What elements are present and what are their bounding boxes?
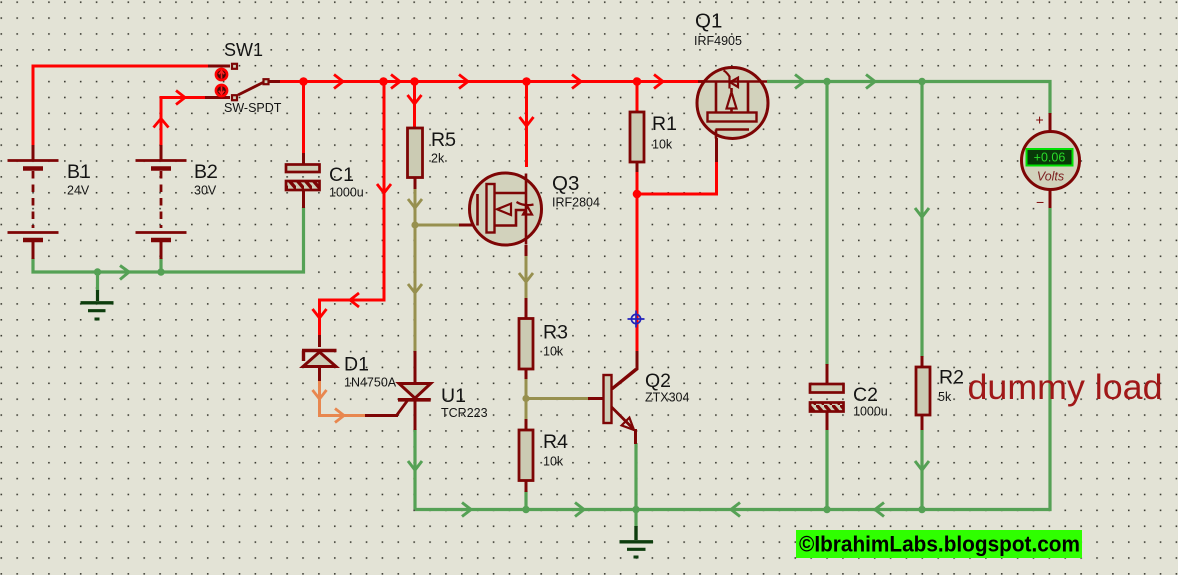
- switch SW1 toggle button up: [216, 69, 227, 80]
- pin: C1 bottom lead (dark): [302, 188, 305, 208]
- pin: U1 gate lead (dark): [365, 400, 408, 416]
- thyristor U1: [398, 384, 431, 400]
- wire: Q2 emitter to rail (green): [634, 443, 637, 510]
- pin: voltmeter plus lead (dark): [1049, 113, 1052, 133]
- ground (center, bottom rail): [620, 526, 654, 557]
- svg-text:2k: 2k: [431, 152, 445, 166]
- svg-text:©IbrahimLabs.blogspot.com: ©IbrahimLabs.blogspot.com: [799, 532, 1080, 557]
- resistor R1: [630, 112, 644, 162]
- pin: R3 top lead (dark): [525, 298, 528, 319]
- pin: R2 bottom lead (dark): [921, 414, 924, 431]
- capacitor C1: [286, 165, 320, 191]
- svg-text:R1: R1: [652, 113, 677, 135]
- junction: bus at R5 drop: [410, 77, 419, 86]
- resistor R3: [519, 319, 533, 370]
- pin: SW1 pole lead (dark): [269, 80, 281, 83]
- svg-text:10k: 10k: [543, 455, 564, 469]
- pin: U1 cathode lead (dark): [414, 399, 417, 430]
- svg-text:+0.06: +0.06: [1034, 151, 1066, 165]
- svg-text:1000u: 1000u: [329, 186, 364, 200]
- voltmeter display: [1027, 149, 1073, 166]
- pin: Q2 emitter lead (dark): [634, 429, 637, 444]
- battery B2: [136, 161, 187, 241]
- junction: bus at Q3 drain drop: [522, 77, 531, 86]
- MOSFET Q3 body: [470, 173, 542, 245]
- pin: Q3 gate lead (dark): [459, 224, 478, 227]
- svg-text:dummy load: dummy load: [968, 368, 1163, 407]
- wire: green to center ground: [634, 510, 637, 528]
- switch SW1 (SPDT): [232, 64, 269, 100]
- svg-text:Volts: Volts: [1037, 170, 1064, 184]
- pin: B1 positive lead (dark): [32, 145, 35, 161]
- svg-text:5k: 5k: [938, 390, 952, 404]
- pin: R2 top lead (dark): [921, 356, 924, 368]
- resistor R4: [519, 430, 533, 481]
- pin: Q2 collector lead (dark): [612, 351, 637, 389]
- wire: R2 bottom to rail (green): [915, 430, 929, 510]
- svg-text:R3: R3: [543, 322, 568, 344]
- junction: bus at D1 drop: [379, 77, 388, 86]
- wire: R4 bottom to rail (green): [524, 491, 527, 510]
- junction: bus at C1 drop: [299, 77, 308, 86]
- junction: B2 bottom on battery rail: [157, 268, 164, 275]
- junction: top green at R2 drop: [918, 78, 925, 85]
- svg-text:ZTX304: ZTX304: [645, 391, 690, 405]
- pin: C2 bottom lead (dark): [826, 411, 829, 431]
- wire: olive node to Q3 gate (olive): [415, 224, 460, 227]
- pin: C2 top lead (dark): [826, 364, 829, 385]
- svg-text:U1: U1: [441, 385, 466, 407]
- pin: voltmeter minus lead (dark): [1049, 188, 1052, 209]
- wire: R2 top drop (green): [915, 82, 929, 358]
- wire: bus down to D1 (red, with corner): [313, 82, 392, 337]
- svg-text:Q3: Q3: [552, 172, 579, 195]
- wire: bus to Q3 drain (red): [520, 82, 534, 168]
- pin: Q3 source lead (dark): [525, 245, 528, 257]
- svg-text:1000u: 1000u: [853, 405, 888, 419]
- wire: C2 bottom to rail (green): [825, 430, 828, 510]
- svg-text:IRF4905: IRF4905: [694, 34, 742, 48]
- svg-text:+: +: [1036, 112, 1044, 128]
- junction: bottom rail at R2: [918, 506, 925, 513]
- svg-text:SW-SPDT: SW-SPDT: [224, 101, 282, 115]
- svg-text:24V: 24V: [67, 184, 90, 198]
- wire: Q1 drain to voltmeter plus (green): [767, 75, 1050, 115]
- capacitor C2: [810, 384, 844, 412]
- junction: R1 bottom node: [633, 190, 642, 199]
- svg-text:R5: R5: [431, 129, 456, 151]
- pin: B1 bottom lead (dark): [32, 241, 35, 259]
- wire: bus to C1 top (red): [302, 82, 305, 155]
- transistor Q2: [604, 369, 637, 430]
- wire: voltmeter minus down and bottom rail (green): [415, 208, 1050, 517]
- pin: R4 top lead (dark): [525, 419, 528, 431]
- wire: U1 cathode to rail (green): [408, 429, 422, 510]
- svg-text:TCR223: TCR223: [441, 406, 488, 420]
- pin: D1 cathode lead (dark): [318, 335, 321, 347]
- MOSFET Q1 body: [697, 68, 768, 139]
- svg-text:SW1: SW1: [224, 40, 263, 60]
- watermark banner background: [796, 530, 1082, 558]
- svg-text:D1: D1: [344, 354, 369, 376]
- wire: C2 top drop (green): [825, 82, 828, 366]
- pin: R5 bottom lead (dark): [414, 177, 417, 190]
- junction: bottom rail at Q2 emitter / ground: [632, 506, 639, 513]
- resistor R5: [408, 128, 423, 178]
- pin: R3 bottom lead (dark): [525, 369, 528, 380]
- wire: main red bus SW1 pole to Q1 source: [280, 75, 704, 89]
- svg-text:R2: R2: [939, 367, 964, 389]
- wire: R5 bottom to olive node (olive): [408, 189, 422, 225]
- svg-text:B2: B2: [194, 161, 218, 183]
- svg-text:10k: 10k: [543, 345, 564, 359]
- MOSFET Q1 internals: [698, 71, 767, 139]
- pin: Q2 base lead (dark): [588, 397, 604, 400]
- wire: Q3 source to R3 top (olive): [519, 256, 533, 299]
- zener diode D1: [302, 351, 337, 367]
- wire: bus to R1 top (red): [636, 82, 639, 113]
- probe marker (blue crosshair) on Q2 collector: [628, 311, 645, 328]
- pin: R1 bottom lead (dark): [636, 162, 639, 172]
- junction: olive node at R3/R4/Q2 base: [522, 395, 529, 402]
- pin: U1 anode lead (dark): [414, 351, 417, 384]
- wire: B2 positive to SW1 lower throw (red): [154, 91, 207, 147]
- MOSFET Q3 internals: [478, 174, 534, 245]
- svg-text:C2: C2: [853, 384, 878, 406]
- pin: B2 positive lead (dark): [160, 145, 163, 161]
- svg-text:B1: B1: [67, 161, 91, 183]
- junction: bottom rail at C2: [823, 506, 830, 513]
- wire: B1 positive to SW1 upper throw (red): [33, 66, 209, 146]
- svg-text:IRF2804: IRF2804: [552, 196, 600, 210]
- svg-text:10k: 10k: [652, 138, 673, 152]
- junction: olive node at R5/U1/Q3 gate: [411, 221, 418, 228]
- pin: D1 anode lead (dark): [318, 365, 321, 382]
- svg-text:30V: 30V: [194, 184, 217, 198]
- pin: SW1 lower throw lead (dark): [205, 96, 230, 99]
- svg-text:Q1: Q1: [695, 10, 722, 33]
- junction: bottom rail at R4: [522, 506, 529, 513]
- svg-text:1N4750A: 1N4750A: [344, 376, 397, 390]
- svg-text:R4: R4: [543, 431, 568, 453]
- pin: SW1 upper throw lead (dark): [208, 65, 230, 68]
- switch SW1 toggle button down: [216, 85, 227, 96]
- wire: bus to R5 top (red): [408, 82, 422, 128]
- junction: bus at R1 drop: [633, 77, 642, 86]
- svg-text:Q2: Q2: [645, 370, 671, 392]
- wire: R1 bottom to node, to Q1 gate and Q2 collector (red): [637, 161, 717, 352]
- junction: top green at C2 drop: [823, 78, 830, 85]
- voltmeter body: [1022, 132, 1080, 190]
- pin: B2 bottom lead (dark): [160, 241, 163, 259]
- wire: olive node down to U1 anode (olive): [408, 225, 422, 352]
- battery B1: [8, 161, 59, 241]
- pin: R4 bottom lead (dark): [525, 480, 528, 492]
- junction: ground tap on battery rail: [94, 268, 101, 275]
- svg-text:−: −: [1036, 194, 1044, 210]
- ground (left, battery rail): [81, 290, 114, 319]
- wire: battery ground rail (green): [33, 207, 304, 280]
- wire: D1 anode to U1 gate (orange): [313, 381, 367, 423]
- pin: Q1 gate lead (dark): [715, 138, 718, 162]
- wire: R3 bottom to R4 top and Q2 base (olive): [526, 379, 589, 420]
- wire: rail to left ground (green): [96, 272, 99, 291]
- resistor R2: [916, 367, 930, 415]
- pin: C1 top lead (dark): [302, 153, 305, 165]
- svg-text:C1: C1: [329, 164, 354, 186]
